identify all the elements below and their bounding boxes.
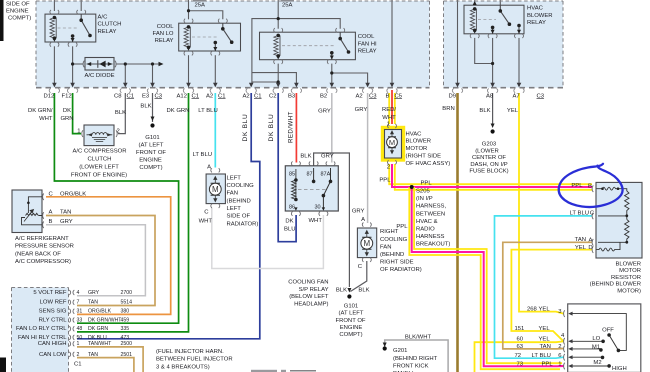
svg-text:SENS SIG: SENS SIG <box>39 309 67 315</box>
junction: C2 jumper node <box>277 80 280 83</box>
svg-text:LOW REF: LOW REF <box>40 300 67 306</box>
svg-text:C1: C1 <box>127 93 135 99</box>
component: blower fan switch box <box>568 304 641 372</box>
svg-text:4: 4 <box>77 290 80 296</box>
svg-text:(LOWER: (LOWER <box>475 148 499 154</box>
svg-text:CLUTCH: CLUTCH <box>98 22 122 28</box>
svg-text:BLK: BLK <box>358 288 369 294</box>
svg-text:GRY: GRY <box>60 219 73 225</box>
svg-text:5 VOLT REF: 5 VOLT REF <box>33 290 67 296</box>
svg-text:WHT: WHT <box>309 218 323 224</box>
wire: HVAC relay output to A7 <box>518 38 520 84</box>
svg-text:RIGHT SIDE: RIGHT SIDE <box>380 260 414 266</box>
wire: TAN circuit 2501, PCM pin 2 CAN low <box>77 358 134 372</box>
svg-text:RELAY: RELAY <box>358 49 377 55</box>
ground: G201 (behind right front kick panel) <box>383 343 387 351</box>
svg-text:HVAC &: HVAC & <box>416 219 438 225</box>
svg-text:A2: A2 <box>356 93 363 99</box>
svg-text:LEFT: LEFT <box>227 175 242 181</box>
svg-text:30: 30 <box>315 205 321 211</box>
wire: partial row at bottom edge <box>290 370 316 372</box>
svg-text:GRY: GRY <box>321 154 334 160</box>
wire: WHT, left cooling fan pin C to S/P relay pin 30 <box>212 208 324 269</box>
page artifact: black bar top-left <box>0 0 4 41</box>
svg-text:DK: DK <box>285 219 293 225</box>
svg-text:WHT: WHT <box>382 115 396 121</box>
svg-text:TAN: TAN <box>540 344 551 350</box>
svg-text:C8: C8 <box>114 93 122 99</box>
svg-text:(NEAR BACK OF: (NEAR BACK OF <box>15 251 61 257</box>
svg-text:RELAY: RELAY <box>98 29 117 35</box>
svg-text:ORG/BLK: ORG/BLK <box>60 192 86 198</box>
wire: LT BLU circuit 72, blower resistor pin C to fan switch pin 6 <box>495 216 593 358</box>
svg-text:B2: B2 <box>320 93 327 99</box>
svg-text:TAN: TAN <box>60 210 71 216</box>
svg-text:D9: D9 <box>449 93 457 99</box>
component: left cooling fan motor <box>206 174 225 204</box>
wire: YEL circuit 60 to fan switch pin 4 <box>475 341 564 372</box>
wire: BLK, A8 to ground G203 <box>492 93 494 126</box>
svg-text:2501: 2501 <box>121 352 133 358</box>
svg-text:BLK/WHT: BLK/WHT <box>405 335 432 341</box>
svg-text:A: A <box>361 217 365 223</box>
svg-text:48: 48 <box>77 326 83 332</box>
svg-text:2700: 2700 <box>121 290 133 296</box>
svg-text:YEL: YEL <box>575 245 587 251</box>
svg-text:C: C <box>204 210 209 216</box>
svg-text:A/C DIODE: A/C DIODE <box>84 73 114 79</box>
svg-text:BLK: BLK <box>300 154 311 160</box>
junction: S205 splice <box>410 185 414 189</box>
wire: TAN circuit 5514, pressure sensor pin A to PCM pin 7 <box>46 216 155 306</box>
svg-text:M: M <box>212 185 219 194</box>
svg-text:HVAC: HVAC <box>527 6 544 12</box>
svg-text:B3: B3 <box>288 93 296 99</box>
svg-text:RADIO: RADIO <box>416 227 435 233</box>
fuse 25A cool fan lo: feed to relay <box>188 0 190 19</box>
svg-text:2500: 2500 <box>121 341 133 347</box>
relay: A/C clutch relay <box>45 14 96 42</box>
svg-text:HARNESS,: HARNESS, <box>416 204 446 210</box>
wire: DK BLU circuit 473, A2/C1 to PCM pin 50 <box>77 93 260 339</box>
wire: GRY, A2/C3 to right cooling fan pin A <box>367 93 369 223</box>
svg-text:COOLING: COOLING <box>227 183 255 189</box>
highlight: yellow marker on PPL branch S205 down to fan switch <box>409 187 560 369</box>
ground: G101 (S/P relay and fans) <box>347 288 351 299</box>
svg-text:C: C <box>590 211 595 217</box>
wire: cool fan hi relay output to B2 and A2/C3 <box>331 64 333 84</box>
wire: battery feed to A/C clutch relay coil (cut at top) <box>53 0 55 11</box>
svg-text:25A: 25A <box>282 3 293 9</box>
component: HVAC blower motor <box>385 130 402 159</box>
svg-text:DK BLU: DK BLU <box>268 113 275 141</box>
svg-text:RELAY: RELAY <box>155 38 174 44</box>
svg-text:MOTOR: MOTOR <box>406 146 428 152</box>
component: blower motor resistor <box>596 182 642 258</box>
svg-text:FAN HI RLY CTRL: FAN HI RLY CTRL <box>18 335 67 341</box>
component: right cooling fan motor <box>357 228 376 258</box>
svg-text:(BEHIND BLOWER: (BEHIND BLOWER <box>590 282 641 288</box>
wire: BLK, right cooling fan pin C to ground G101 <box>350 261 366 292</box>
svg-text:31: 31 <box>77 309 83 315</box>
annotation: hand-drawn blue circle around blower resistor pin B <box>559 164 623 207</box>
svg-text:FRONT OF: FRONT OF <box>136 150 166 156</box>
svg-text:86: 86 <box>289 205 295 211</box>
svg-text:C1: C1 <box>254 93 262 99</box>
svg-text:FRONT OF ENGINE): FRONT OF ENGINE) <box>71 173 127 179</box>
svg-text:2: 2 <box>117 129 120 135</box>
svg-text:CENTER OF: CENTER OF <box>472 155 506 161</box>
component: A/C refrigerant pressure sensor <box>12 190 43 233</box>
svg-text:LT BLU: LT BLU <box>532 353 551 359</box>
svg-text:335: 335 <box>121 326 130 332</box>
svg-text:C3: C3 <box>155 93 163 99</box>
svg-text:FRONT OF: FRONT OF <box>336 318 366 324</box>
wire: RED/WHT, B/C5 to blower motor pin 1 <box>391 90 393 124</box>
wire: BLK/WHT, fan switch ground to G201 <box>385 340 448 372</box>
svg-text:BLK: BLK <box>336 288 347 294</box>
highlight: yellow marker on PPL wire, motor pin 2 to S205 to resistor B <box>389 164 592 184</box>
svg-text:C3: C3 <box>369 93 377 99</box>
svg-text:GRY: GRY <box>88 290 100 296</box>
wire: A/C clutch relay output to F12 with A/C diode branch <box>72 46 74 84</box>
svg-text:YEL: YEL <box>539 307 551 313</box>
svg-text:(BEHIND: (BEHIND <box>227 198 251 204</box>
svg-text:LT BLU: LT BLU <box>198 108 217 114</box>
svg-text:3 & 4 BREAKOUTS): 3 & 4 BREAKOUTS) <box>156 364 210 370</box>
svg-text:PPL: PPL <box>421 180 433 186</box>
svg-text:WHT: WHT <box>199 219 213 225</box>
svg-text:25A: 25A <box>195 3 206 9</box>
svg-text:BETWEEN: BETWEEN <box>416 211 445 217</box>
svg-text:60: 60 <box>517 337 524 343</box>
svg-text:A/C COMPRESSOR): A/C COMPRESSOR) <box>15 259 71 265</box>
svg-text:WHT: WHT <box>39 116 53 122</box>
wire: DK GRN/WHT circuit 459, D12 to PCM pin 33 <box>54 93 178 323</box>
relay: cool fan hi relay <box>260 32 356 60</box>
relay: cool fan lo relay <box>179 23 241 51</box>
svg-text:BRN: BRN <box>442 106 454 112</box>
svg-text:TAN: TAN <box>575 237 586 243</box>
wire: DK GRN circuit 335, A12 to PCM pin 48 <box>77 93 189 332</box>
svg-text:B: B <box>49 219 53 225</box>
svg-text:G101: G101 <box>145 135 159 141</box>
svg-text:63: 63 <box>517 344 524 350</box>
svg-text:TAN/WHT: TAN/WHT <box>88 341 112 347</box>
svg-text:DK GRN/WHT: DK GRN/WHT <box>88 317 122 323</box>
relay: cooling fan S/P relay <box>285 166 338 211</box>
svg-text:A: A <box>49 210 53 216</box>
svg-text:A2: A2 <box>243 93 250 99</box>
svg-text:A: A <box>207 164 211 170</box>
wire: HVAC relay coil low to A8 <box>475 38 493 64</box>
wire: BLK, C8 to A/C compressor clutch pin 2 <box>118 93 125 134</box>
svg-text:TAN: TAN <box>88 352 98 358</box>
junction: fuse 1 feed node <box>187 9 190 12</box>
svg-text:HARNESS: HARNESS <box>416 234 445 240</box>
page artifact: black box bottom-left <box>0 358 6 372</box>
underhood fuse block dashed box fill <box>36 1 430 88</box>
wire: HVAC blower relay control D9 <box>457 0 459 84</box>
svg-text:MOTOR): MOTOR) <box>617 288 641 294</box>
svg-text:(BELOW LEFT: (BELOW LEFT <box>289 294 329 300</box>
svg-text:DK GRN: DK GRN <box>88 326 108 332</box>
svg-text:A12: A12 <box>177 93 187 99</box>
svg-text:ENGINE: ENGINE <box>139 158 162 164</box>
svg-text:DASH, ON I/P: DASH, ON I/P <box>470 162 507 168</box>
svg-text:FAN: FAN <box>227 191 238 197</box>
svg-text:HVAC: HVAC <box>406 131 423 137</box>
svg-text:S205: S205 <box>416 189 430 195</box>
svg-text:BLK: BLK <box>115 110 126 116</box>
wire: GRY circuit 2700, pressure sensor pin B to PCM pin 4 <box>46 225 145 296</box>
relay: HVAC blower relay <box>464 5 524 34</box>
svg-text:S/P RELAY: S/P RELAY <box>299 287 329 293</box>
svg-text:F12: F12 <box>62 93 72 99</box>
svg-text:COOL: COOL <box>358 34 375 40</box>
svg-text:M1: M1 <box>592 345 600 351</box>
wire: fuse block feed to B/C5 (blower motor) <box>391 0 393 84</box>
wire: TAN circuit 63, blower resistor pin A to fan switch pin 2 <box>503 242 592 349</box>
fuse 25A cool fan hi: feed to relay coil and switch <box>277 0 279 29</box>
svg-text:FUSE BLOCK): FUSE BLOCK) <box>469 169 508 175</box>
ground: G101 (E3, at left front of engine compt) <box>150 117 154 128</box>
cut fuse text marks at top <box>193 0 206 2</box>
svg-text:DK: DK <box>63 108 71 114</box>
svg-text:(RIGHT SIDE: (RIGHT SIDE <box>406 154 442 160</box>
wire: DK BLU, C2 to cooling fan S/P relay pin 86 <box>278 93 296 242</box>
svg-text:(AT LEFT: (AT LEFT <box>139 142 164 148</box>
wire: BRN, D9 blower relay control <box>456 93 459 372</box>
svg-text:CAN LOW: CAN LOW <box>39 352 67 358</box>
wire: A/C clutch relay coil low side to D12 <box>53 46 55 84</box>
svg-text:GRY: GRY <box>355 107 368 113</box>
svg-text:M: M <box>363 239 370 248</box>
svg-text:D: D <box>588 245 592 251</box>
wire: DK GRN circuit 335, F12 to A/C compressor clutch pin 1 <box>73 93 81 134</box>
svg-text:151: 151 <box>515 326 525 332</box>
svg-text:TAN: TAN <box>88 300 98 306</box>
svg-text:M: M <box>389 138 395 147</box>
svg-text:5514: 5514 <box>121 300 133 306</box>
svg-text:A7: A7 <box>513 93 520 99</box>
svg-text:C5: C5 <box>395 93 403 99</box>
svg-text:COOLING: COOLING <box>380 237 408 243</box>
svg-text:PPL: PPL <box>542 362 554 368</box>
svg-text:E3: E3 <box>142 93 150 99</box>
svg-text:COOL: COOL <box>157 24 174 30</box>
svg-text:PPL: PPL <box>571 183 583 189</box>
svg-text:M2: M2 <box>593 360 601 366</box>
svg-text:LT BLU: LT BLU <box>193 152 212 158</box>
svg-text:OF HVAC ASSY): OF HVAC ASSY) <box>406 161 451 167</box>
svg-text:2: 2 <box>77 352 80 358</box>
junction: HVAC relay coil low node on A8 wire <box>491 62 494 65</box>
svg-text:YEL: YEL <box>539 337 551 343</box>
wire: GRY, B2 to cooling fan S/P relay pin 87A <box>331 93 333 163</box>
wire: battery feed to A/C clutch relay switch (cut at top) <box>80 0 82 11</box>
svg-text:GRY: GRY <box>318 109 331 115</box>
svg-text:RESISTOR: RESISTOR <box>611 275 641 281</box>
HVAC relay dashed box fill <box>444 1 564 88</box>
wire: PPL, blower motor pin 2 through S205 to blower resistor pin B <box>392 164 592 187</box>
ground: G203 (A8, lower center of dash) <box>491 124 495 134</box>
svg-text:ENGINE: ENGINE <box>340 325 363 331</box>
wire: BLK, E3 to ground G101 left <box>152 93 154 122</box>
svg-text:50: 50 <box>77 335 83 341</box>
svg-text:A8: A8 <box>486 93 494 99</box>
junction: fuse 2 feed node <box>277 17 280 20</box>
wire: cool fan lo relay output to A2 <box>214 55 216 84</box>
svg-text:PRESSURE SENSOR: PRESSURE SENSOR <box>15 244 74 250</box>
svg-text:A/C COMPRESSOR: A/C COMPRESSOR <box>72 149 126 155</box>
svg-text:FAN LO: FAN LO <box>153 31 174 37</box>
svg-text:BLK: BLK <box>140 104 151 110</box>
svg-text:380: 380 <box>121 309 130 315</box>
svg-text:473: 473 <box>121 335 130 341</box>
svg-text:C1: C1 <box>218 93 226 99</box>
svg-text:1: 1 <box>77 129 80 135</box>
svg-text:COOLING FAN: COOLING FAN <box>288 280 328 286</box>
svg-text:2: 2 <box>387 165 390 171</box>
svg-text:FAN HI: FAN HI <box>358 41 377 47</box>
svg-text:C1: C1 <box>192 93 200 99</box>
svg-text:BLK: BLK <box>479 108 490 114</box>
wire: cool fan hi relay coil low to C2 <box>277 64 279 84</box>
svg-text:BLU: BLU <box>284 227 295 233</box>
svg-text:(AT LEFT: (AT LEFT <box>339 311 364 317</box>
svg-text:LT BLU: LT BLU <box>570 210 589 216</box>
svg-text:(BEHIND: (BEHIND <box>380 252 404 258</box>
connector face: PCM dashed border <box>12 288 69 372</box>
svg-text:BETWEEN FUEL INJECTOR: BETWEEN FUEL INJECTOR <box>156 357 233 363</box>
svg-text:C1: C1 <box>74 362 82 368</box>
svg-text:FAN LO RLY CTRL: FAN LO RLY CTRL <box>16 326 67 332</box>
component: A/C compressor clutch <box>84 125 114 146</box>
svg-text:85: 85 <box>289 172 295 178</box>
svg-text:ENGINE: ENGINE <box>6 9 29 15</box>
wire: PPL circuit 73, S205 to fan switch pin 1 <box>412 187 564 366</box>
svg-text:1: 1 <box>387 121 390 127</box>
svg-text:87A: 87A <box>321 172 331 178</box>
svg-text:DK GRN/: DK GRN/ <box>28 108 53 114</box>
svg-text:LO: LO <box>592 336 600 342</box>
wire: YEL circuit 151, blower resistor pin D to fan switch pin 4 <box>511 250 592 342</box>
svg-text:BREAKOUT): BREAKOUT) <box>416 242 450 248</box>
svg-text:1: 1 <box>558 361 561 367</box>
svg-text:CAN HIGH: CAN HIGH <box>38 341 67 347</box>
svg-text:33: 33 <box>77 317 83 323</box>
svg-text:1: 1 <box>77 341 80 347</box>
wire: RED/WHT, B3 to cooling fan S/P relay pin 85 <box>295 93 297 163</box>
svg-text:HIGH: HIGH <box>612 366 627 372</box>
svg-text:73: 73 <box>517 362 524 368</box>
svg-text:(LOWER LEFT: (LOWER LEFT <box>79 165 119 171</box>
svg-text:COMPT): COMPT) <box>339 332 362 338</box>
svg-text:GRY: GRY <box>352 209 365 215</box>
svg-text:ORG/BLK: ORG/BLK <box>88 309 112 315</box>
svg-text:SIDE OF: SIDE OF <box>227 214 251 220</box>
svg-text:CLUTCH: CLUTCH <box>88 157 112 163</box>
wire: HVAC blower relay coil top feed (cut at top) <box>474 0 476 5</box>
svg-text:FAN: FAN <box>380 244 391 250</box>
svg-text:C: C <box>49 192 54 198</box>
wire: TAN/WHT circuit 2500, PCM pin 1 CAN high <box>77 347 143 372</box>
connector face: underhood fuse block dashed border <box>36 1 563 88</box>
svg-text:RADIATOR): RADIATOR) <box>227 221 259 227</box>
svg-text:G101: G101 <box>344 303 358 309</box>
svg-text:BLOWER: BLOWER <box>615 261 641 267</box>
svg-text:BLOWER: BLOWER <box>527 13 553 19</box>
svg-text:FRONT KICK: FRONT KICK <box>393 363 429 369</box>
svg-text:B: B <box>386 93 390 99</box>
svg-text:GRN: GRN <box>60 116 73 122</box>
svg-text:2: 2 <box>558 344 561 350</box>
svg-text:G203: G203 <box>482 142 497 148</box>
svg-text:LEFT: LEFT <box>227 206 242 212</box>
svg-text:RLY CTRL: RLY CTRL <box>39 317 68 323</box>
svg-text:7: 7 <box>77 300 80 306</box>
wire: LT BLU, A2 to left cooling fan pin A <box>214 93 216 168</box>
svg-text:459: 459 <box>121 317 130 323</box>
svg-text:(BEHIND RIGHT: (BEHIND RIGHT <box>393 356 438 362</box>
svg-text:OF RADIATOR): OF RADIATOR) <box>380 267 422 273</box>
svg-text:SIDE OF: SIDE OF <box>6 2 30 8</box>
wire: cool fan lo relay coil low to A12 <box>188 55 190 84</box>
svg-text:RELAY: RELAY <box>527 20 546 26</box>
svg-text:YEL: YEL <box>507 108 519 114</box>
highlight: yellow marker around blower motor box <box>383 128 404 161</box>
svg-text:DK GRN: DK GRN <box>167 108 190 114</box>
wire: BLK, S/P relay pin 87 to ground G101 <box>314 153 350 287</box>
junction: fan hi output to B2/A2 node <box>330 71 333 74</box>
svg-text:C2: C2 <box>269 93 277 99</box>
svg-text:RED/: RED/ <box>382 107 396 113</box>
svg-text:B: B <box>588 184 592 190</box>
svg-text:PPL: PPL <box>379 178 391 184</box>
svg-text:C3: C3 <box>537 93 545 99</box>
svg-text:(IN I/P: (IN I/P <box>416 196 433 202</box>
svg-text:A/C: A/C <box>98 15 109 21</box>
svg-text:DK BLU: DK BLU <box>88 335 107 341</box>
svg-text:(FUEL INJECTOR HARN.: (FUEL INJECTOR HARN. <box>156 349 224 355</box>
svg-text:HEADLAMP): HEADLAMP) <box>294 301 328 307</box>
svg-text:MOTOR: MOTOR <box>619 268 641 274</box>
svg-text:72: 72 <box>515 353 522 359</box>
PCM dashed box fill <box>12 288 69 372</box>
svg-text:PPL: PPL <box>396 224 408 230</box>
highlight: yellow marker on RED/WHT feed at blower motor <box>388 93 390 124</box>
svg-text:A/C REFRIGERANT: A/C REFRIGERANT <box>15 236 69 242</box>
diode: A/C diode <box>85 58 114 71</box>
svg-text:G201: G201 <box>393 348 407 354</box>
svg-text:A: A <box>589 237 593 243</box>
svg-text:A2: A2 <box>206 93 213 99</box>
svg-text:BLOWER: BLOWER <box>406 139 432 145</box>
junction: A/C diode tap on F12 wire <box>71 62 74 65</box>
svg-text:D12: D12 <box>44 93 55 99</box>
svg-text:YEL: YEL <box>539 326 551 332</box>
wire: A/C diode branch to C8 and E3 <box>73 63 84 65</box>
svg-text:C: C <box>358 264 363 270</box>
arrows: relay coil-bottom pins <box>53 38 56 41</box>
svg-text:268: 268 <box>527 307 538 313</box>
wire: fused feed branch to B3, C2 jumper and A2/C1 <box>252 19 278 84</box>
svg-text:DK BLU: DK BLU <box>242 113 249 141</box>
junction: diode output node <box>124 62 127 65</box>
wire: ORG/BLK circuit 380, pressure sensor pin C to PCM pin 31 <box>46 197 171 315</box>
svg-text:COMPT): COMPT) <box>8 16 31 22</box>
